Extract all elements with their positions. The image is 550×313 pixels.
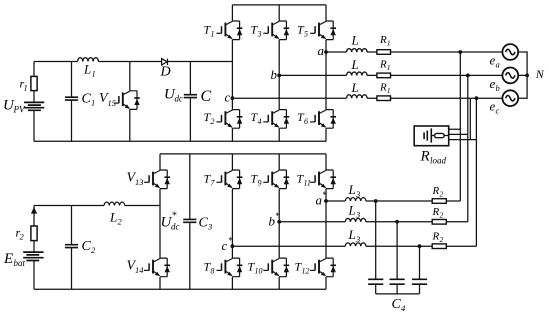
node: tap c [475, 96, 479, 100]
resistor R1 (phase c) [377, 96, 391, 101]
svg-text:L: L [109, 210, 117, 225]
svg-text:L: L [351, 33, 359, 48]
svg-text:c: c [225, 90, 231, 105]
capacitor C2 [71, 206, 73, 290]
wire: tap b vertical [467, 75, 469, 221]
wire: line a* [326, 200, 460, 202]
node: tap a [458, 50, 462, 54]
resistor R1 (phase b) [377, 73, 391, 78]
svg-text:R: R [420, 149, 430, 165]
svg-text:1: 1 [24, 83, 28, 93]
svg-text:3: 3 [355, 189, 360, 199]
svg-text:1: 1 [92, 69, 96, 79]
capacitor C1 [71, 62, 73, 142]
wire: inverter top rail [232, 4, 326, 6]
node: C4 tap c [418, 244, 422, 248]
svg-text:D: D [160, 65, 171, 80]
svg-text:3: 3 [207, 222, 212, 232]
svg-text:c: c [222, 238, 228, 253]
svg-text:2: 2 [91, 245, 96, 255]
svg-text:*: * [275, 211, 280, 221]
transistor T8 [217, 258, 243, 277]
svg-text:14: 14 [135, 265, 144, 275]
svg-text:1: 1 [387, 86, 391, 95]
svg-text:3: 3 [355, 234, 360, 244]
svg-text:4: 4 [401, 303, 406, 313]
transistor T3 [263, 21, 289, 40]
svg-text:a: a [496, 60, 500, 70]
wire: bottom rail (lower section) [34, 288, 326, 290]
transistor V13 [144, 170, 170, 189]
inductor L (phase b) [347, 72, 368, 75]
svg-text:R: R [432, 206, 440, 218]
inductor L (phase c) [347, 95, 368, 98]
wire: r2 to battery [33, 241, 35, 252]
svg-text:2: 2 [440, 235, 444, 244]
svg-text:2: 2 [440, 211, 444, 220]
wire: V15 leg [129, 62, 131, 142]
node b [277, 74, 281, 78]
inductor L3 (c*) [345, 243, 366, 246]
node b* [277, 220, 281, 224]
svg-text:C: C [392, 297, 402, 312]
svg-text:2: 2 [20, 232, 25, 242]
svg-text:L: L [351, 80, 359, 95]
svg-text:b: b [271, 67, 278, 82]
capacitor C (dc link) [189, 62, 191, 142]
wire: leg T5/T6 [325, 5, 327, 141]
svg-text:bat: bat [14, 258, 26, 268]
wire: R_load to taps [449, 129, 477, 139]
svg-text:8: 8 [211, 267, 215, 276]
diode D [162, 59, 168, 65]
svg-text:N: N [535, 67, 545, 81]
transistor T2 [217, 110, 243, 129]
wire: battery left leg with current arrow [33, 206, 35, 227]
svg-text:R: R [379, 34, 387, 46]
svg-text:*: * [322, 190, 327, 200]
svg-text:11: 11 [304, 179, 311, 188]
wire: line b* [279, 221, 468, 223]
svg-text:1: 1 [387, 39, 391, 48]
node: C4 tap a [374, 199, 378, 203]
node N [525, 74, 529, 78]
svg-text:C: C [82, 239, 92, 254]
svg-text:L: L [83, 62, 91, 77]
transistor T1 [217, 21, 243, 40]
transistor T4 [263, 110, 289, 129]
transistor T12 [310, 258, 336, 277]
svg-text:R: R [432, 231, 440, 243]
svg-text:load: load [430, 156, 447, 166]
transistor V15 [114, 91, 140, 110]
svg-text:12: 12 [302, 267, 310, 276]
inductor L (phase a) [347, 49, 368, 52]
source e_c [502, 90, 518, 106]
svg-text:R: R [379, 59, 387, 71]
transistor T11 [310, 170, 336, 189]
wire: V13/V14 leg [159, 154, 161, 289]
battery E_bat [23, 252, 43, 258]
svg-text:15: 15 [108, 98, 117, 108]
wire: r1 to battery [33, 91, 35, 103]
svg-text:R: R [432, 185, 440, 197]
svg-text:9: 9 [258, 179, 262, 188]
svg-text:2: 2 [211, 117, 215, 126]
svg-text:c: c [496, 106, 500, 116]
svg-text:2: 2 [440, 190, 444, 199]
svg-text:L: L [348, 227, 356, 242]
wire: extra vertical [469, 98, 471, 139]
svg-text:PV: PV [13, 105, 26, 115]
resistor R2 (c*) [432, 244, 446, 249]
resistor r2 [31, 226, 37, 241]
wire: PV top rail [34, 61, 232, 63]
inductor L1 [78, 58, 99, 62]
wire: PV left leg upper [33, 62, 35, 77]
wire: phase c line [232, 97, 502, 99]
wire: C4 common bus [376, 293, 420, 295]
svg-text:1: 1 [91, 98, 95, 108]
resistor R1 (phase a) [377, 50, 391, 55]
svg-text:E: E [3, 251, 13, 267]
wire: phase b line [279, 74, 502, 76]
svg-text:*: * [228, 236, 233, 246]
svg-text:4: 4 [258, 117, 262, 126]
svg-text:C: C [201, 88, 212, 105]
capacitor C3 [189, 154, 191, 289]
svg-text:3: 3 [355, 210, 360, 220]
wire: phase a line [326, 51, 502, 53]
resistor R2 (a*) [432, 199, 446, 204]
svg-text:a: a [318, 43, 325, 58]
svg-text:2: 2 [118, 217, 123, 227]
svg-text:dc: dc [175, 94, 184, 104]
svg-text:3: 3 [257, 30, 262, 39]
wire: lower inverter top rail [160, 153, 326, 155]
transistor T9 [263, 170, 289, 189]
wire: leg T11/T12 [325, 154, 327, 289]
svg-text:C: C [199, 216, 209, 231]
svg-text:b: b [496, 83, 500, 93]
wire: battery mid rail [34, 205, 160, 207]
inductor L3 (b*) [345, 218, 366, 221]
svg-text:L: L [351, 57, 359, 72]
inductor L2 [104, 202, 125, 205]
node a [324, 50, 328, 54]
wire: tap a vertical [459, 52, 461, 201]
svg-text:dc: dc [171, 222, 180, 232]
svg-text:R: R [379, 82, 387, 94]
node a* [324, 199, 328, 203]
svg-text:10: 10 [255, 267, 263, 276]
transistor T5 [310, 21, 336, 40]
resistor R2 (b*) [432, 220, 446, 225]
transistor V14 [144, 258, 170, 277]
transistor T7 [217, 170, 243, 189]
capacitor C4 phase b [396, 222, 398, 294]
node c [231, 96, 235, 100]
wire: battery to bottom rail [33, 110, 35, 141]
wire: leg T9/T10 [278, 154, 280, 289]
svg-text:13: 13 [135, 177, 144, 187]
wire: tap c vertical [475, 98, 477, 246]
svg-text:6: 6 [304, 117, 308, 126]
wire: leg T3/T4 [278, 5, 280, 141]
svg-text:C: C [82, 92, 92, 107]
svg-text:L: L [348, 203, 356, 218]
wire: battery to bottom rail [33, 261, 35, 290]
svg-text:1: 1 [387, 63, 391, 72]
svg-text:L: L [348, 182, 356, 197]
load R_load box [414, 126, 449, 146]
transistor T6 [310, 110, 336, 129]
capacitor C4 phase c [419, 246, 421, 294]
svg-text:*: * [172, 211, 177, 222]
source e_a [502, 44, 518, 60]
battery U_PV [24, 102, 44, 107]
source e_b [502, 68, 518, 84]
node c* [231, 244, 235, 248]
svg-text:1: 1 [211, 30, 215, 39]
capacitor C4 phase a [375, 201, 377, 294]
transistor T10 [263, 258, 289, 277]
svg-text:5: 5 [304, 30, 308, 39]
resistor r1 [31, 76, 37, 90]
node: tap b [466, 74, 470, 78]
wire: bottom rail (top section) [34, 140, 326, 142]
wire: line c* [232, 245, 476, 247]
svg-text:7: 7 [211, 179, 216, 188]
wire: leg T1/T2 [231, 5, 233, 141]
inductor L3 (a*) [345, 198, 366, 201]
wire: leg T7/T8 [231, 154, 233, 289]
wire: neutral bus [518, 52, 527, 98]
node: C4 tap b [395, 220, 399, 224]
